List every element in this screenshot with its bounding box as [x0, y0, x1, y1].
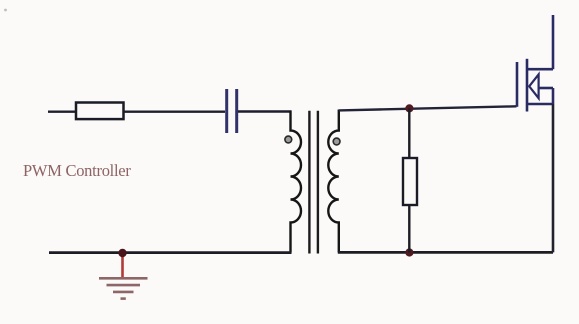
node bottom junction (resistor to return rail) — [405, 248, 413, 256]
node top junction (secondary/gate/resistor) — [405, 104, 413, 112]
source stub — [527, 103, 553, 106]
ground (earth symbol, bottom-left) — [99, 253, 148, 299]
transformer T1 primary winding — [291, 111, 302, 253]
transformer core lines — [308, 111, 310, 254]
wire resistor to capacitor — [124, 110, 226, 112]
phase dot primary — [285, 136, 292, 143]
transformer T1 secondary winding — [328, 110, 339, 253]
wire bottom rail right (secondary return) — [338, 251, 553, 254]
wire source down to rail — [552, 104, 555, 252]
drain stub — [527, 68, 553, 71]
wire top-left rail from input to resistor — [48, 110, 77, 112]
wire top rail right: secondary to MOSFET gate — [339, 106, 517, 110]
wire top junction down to resistor R2 — [408, 108, 410, 158]
speck artifact top-left — [4, 9, 7, 12]
body stub — [539, 87, 553, 90]
wire bottom rail left (source return to primary) — [49, 251, 292, 254]
resistor R1 (series, horizontal) — [76, 103, 124, 120]
transistor Q1 (N-MOSFET) — [517, 15, 553, 252]
body-source tie — [552, 88, 555, 104]
node ground junction — [118, 249, 126, 257]
wire drain up — [552, 15, 555, 69]
capacitor C1 (series coupling) — [227, 89, 237, 133]
wire capacitor to transformer primary — [238, 110, 292, 112]
phase dot secondary — [333, 138, 340, 145]
gate bar — [516, 62, 519, 107]
channel bar — [526, 59, 529, 112]
svg-text:PWM Controller: PWM Controller — [23, 161, 131, 180]
resistor R2 (vertical load) — [403, 158, 417, 205]
body arrow — [529, 74, 538, 98]
wire resistor R2 to bottom junction — [408, 205, 410, 253]
